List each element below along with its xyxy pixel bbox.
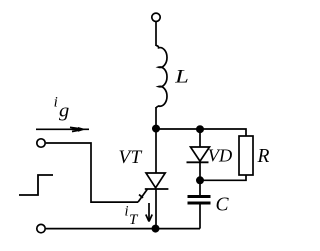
svg-text:C: C: [216, 194, 230, 215]
svg-text:g: g: [59, 100, 69, 121]
svg-text:R: R: [257, 146, 270, 167]
svg-text:i: i: [125, 203, 129, 219]
svg-text:VD: VD: [208, 146, 232, 166]
svg-text:T: T: [129, 212, 139, 228]
svg-text:i: i: [54, 95, 58, 111]
svg-text:VT: VT: [119, 147, 143, 168]
svg-text:L: L: [174, 66, 189, 87]
